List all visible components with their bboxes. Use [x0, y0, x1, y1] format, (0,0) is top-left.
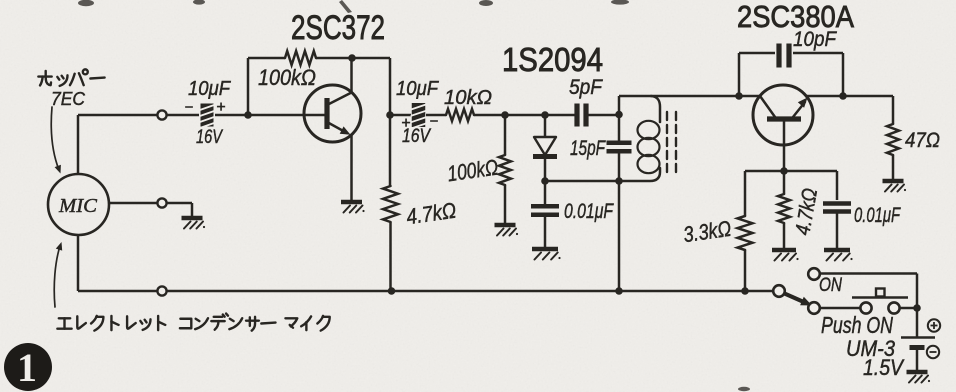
svg-text:0.01μF: 0.01μF [854, 204, 901, 227]
label electret condenser mic [57, 318, 71, 328]
svg-text:+: + [216, 99, 225, 116]
svg-text:−: − [185, 99, 194, 116]
svg-text:+: + [401, 115, 410, 132]
wire ON to battery [820, 272, 918, 275]
wire top rail stage1 [248, 57, 285, 60]
inductor L1 coil [651, 96, 660, 122]
transistor Q1 2SC372 [304, 85, 361, 142]
wire push contact [820, 307, 861, 310]
resistor R2 4.7k ohm [383, 186, 398, 222]
wire R5 riser [744, 171, 747, 216]
wire C2 to R3 [426, 114, 446, 117]
wire R3 to diode node [474, 114, 575, 117]
svg-text:10kΩ: 10kΩ [444, 87, 492, 109]
wire C3 to ground [544, 215, 547, 247]
wire C1 to Q1 base [215, 114, 325, 117]
wire C2 lead [390, 114, 411, 117]
wire to mic ground [167, 202, 193, 205]
switch throw ON [808, 268, 820, 280]
node R5 rail [741, 287, 749, 295]
node tank top [615, 111, 623, 119]
node collector rail [348, 54, 356, 62]
wire emitter bus [745, 170, 837, 173]
svg-text:1.5V: 1.5V [863, 355, 905, 380]
node diode anode [541, 111, 549, 119]
svg-text:7EC: 7EC [51, 89, 86, 109]
resistor R3 10k ohm [446, 109, 474, 121]
wire R7 to ground [892, 155, 895, 179]
svg-text:2SC372: 2SC372 [291, 9, 385, 47]
svg-text:10μF: 10μF [188, 78, 232, 100]
wire mic bottom [77, 235, 80, 291]
capacitor C6 10pF [776, 44, 781, 68]
resistor R6 4.7k ohm [783, 171, 786, 194]
svg-text:15pF: 15pF [570, 137, 606, 160]
wire R6 to ground [783, 223, 786, 248]
svg-text:100kΩ: 100kΩ [258, 65, 316, 90]
node collector Q2 [839, 92, 847, 100]
svg-text:ON: ON [819, 275, 842, 296]
wire emitter Q2 down [783, 121, 786, 171]
svg-text:MIC: MIC [58, 195, 98, 217]
wire input to C1 [167, 114, 200, 117]
wire feedback left riser [738, 53, 741, 96]
node R2 bottom [388, 287, 396, 295]
node emitter junction [780, 167, 788, 175]
wire C7 riser [836, 171, 839, 200]
number badge 1 [4, 343, 52, 391]
scan specks top edge [78, 0, 750, 391]
wire base line Q2 [619, 95, 760, 98]
capacitor C4 5pF [574, 104, 579, 127]
wire emitter Q1 to ground [350, 135, 353, 200]
terminal bottom [157, 286, 166, 295]
ground mic [182, 216, 203, 221]
wire feedback right riser [842, 53, 845, 96]
wire collector Q1 [350, 58, 353, 93]
terminal mic ground [157, 198, 166, 207]
resistor R1 100k ohm [285, 51, 316, 65]
svg-text:1S2094: 1S2094 [502, 41, 603, 78]
wire C4 to tank [588, 114, 619, 117]
switch pole [773, 285, 785, 297]
resistor R4 100k ohm [499, 155, 511, 185]
ground R7 [883, 179, 904, 184]
wire R4 to ground [504, 185, 507, 223]
svg-text:0.01μF: 0.01μF [564, 200, 614, 223]
label kappa 7EC [38, 71, 51, 86]
wire mic top lead [78, 114, 157, 117]
capacitor C5 15pF [618, 114, 621, 141]
node R4 top [501, 111, 509, 119]
plus symbol [928, 319, 940, 331]
resistor R5 3.3k ohm [738, 216, 753, 250]
svg-text:16V: 16V [196, 127, 224, 148]
wire tank bottom link [545, 180, 619, 183]
ground C3 [532, 247, 558, 252]
ground emitter Q1 [341, 200, 362, 205]
ground R4 [495, 223, 516, 228]
core dashed lines [666, 112, 668, 174]
arrow to mic top [51, 107, 59, 170]
switch lever arrow [785, 294, 807, 304]
svg-text:2SC380A: 2SC380A [737, 0, 854, 34]
capacitor C3 0.01uF [531, 204, 559, 208]
switch throw push [808, 302, 820, 314]
wire tank to bottom rail [618, 181, 621, 291]
resistor R7 47 ohm [887, 124, 899, 155]
svg-text:Push ON: Push ON [821, 312, 893, 338]
wire diode to C3 [544, 181, 547, 204]
wire button to battery [900, 307, 918, 310]
node diode cathode [541, 177, 549, 185]
minus symbol [927, 346, 939, 358]
battery BT1 UM-3 [901, 336, 935, 339]
wire R5 to rail [744, 250, 747, 291]
pushbutton SW [860, 302, 871, 313]
wire C7 to ground [836, 212, 839, 248]
wire bias riser [247, 58, 250, 115]
diode D1 1S2094 [534, 137, 556, 155]
node feedback left [735, 92, 743, 100]
node base Q1 / bias junction [244, 111, 252, 119]
capacitor C1 10uF electrolytic [201, 104, 214, 127]
transistor Q2 2SC380A [753, 85, 813, 145]
wire R2 to bottom rail [389, 222, 392, 291]
wire rail corner down [389, 58, 392, 186]
wire R7 corner [892, 96, 895, 124]
capacitor C2 10uF electrolytic [412, 103, 426, 127]
node C2 junction [386, 111, 394, 119]
wire mic output [109, 202, 157, 205]
svg-text:10μF: 10μF [396, 78, 440, 100]
node tank bottom [615, 177, 623, 185]
ground R6 [772, 248, 796, 253]
wire R4 riser [504, 115, 507, 155]
terminal input top [157, 110, 166, 119]
ground C7 [824, 248, 850, 253]
wire tank riser [618, 96, 621, 115]
ground battery [907, 370, 928, 375]
svg-text:47Ω: 47Ω [905, 129, 940, 152]
node battery top [913, 304, 921, 312]
wire bottom rail [167, 290, 775, 293]
wire feedback top [739, 52, 775, 55]
node tank rail [615, 287, 623, 295]
wire collector Q2 out [806, 95, 893, 98]
arrow to mic bottom [54, 246, 60, 307]
wire diode top [544, 115, 547, 137]
svg-text:1: 1 [17, 345, 37, 390]
capacitor C7 0.01uF [823, 201, 851, 205]
svg-text:5pF: 5pF [569, 76, 603, 99]
microphone MIC [48, 174, 109, 235]
